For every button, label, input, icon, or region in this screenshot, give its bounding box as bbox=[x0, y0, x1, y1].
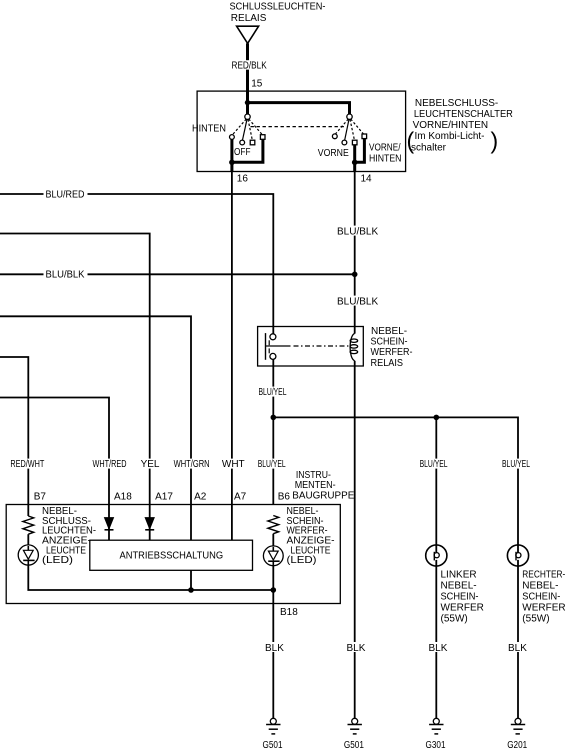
svg-text:BLU/YEL: BLU/YEL bbox=[502, 459, 530, 470]
label BLU/BLK bbox=[44, 269, 88, 280]
svg-text:BLU/BLK: BLU/BLK bbox=[337, 296, 378, 307]
relay K2 dash-dot link bbox=[269, 345, 348, 347]
svg-text:NEBEL-: NEBEL- bbox=[371, 326, 407, 337]
svg-text:BLK: BLK bbox=[508, 643, 527, 654]
relay K2 label bbox=[371, 326, 413, 369]
ground G501 at relay coil bbox=[344, 718, 364, 750]
svg-text:WHT/GRN: WHT/GRN bbox=[174, 459, 210, 470]
svg-text:G301: G301 bbox=[426, 740, 446, 750]
svg-text:(LED): (LED) bbox=[287, 555, 317, 566]
label BLU/YEL right lamp bbox=[501, 459, 532, 470]
wire bus BLU/YEL to fog lamps bbox=[273, 417, 518, 553]
svg-text:RELAIS: RELAIS bbox=[371, 358, 404, 369]
label BLU/YEL at B6 bbox=[257, 459, 287, 470]
svg-text:B6: B6 bbox=[278, 491, 291, 502]
node junction 14 bbox=[352, 160, 358, 166]
svg-text:G501: G501 bbox=[263, 740, 283, 750]
wire BLU/BLK feeder to relay coil bbox=[0, 273, 355, 275]
dashed mechanical link between poles bbox=[251, 126, 346, 128]
svg-text:B18: B18 bbox=[280, 607, 298, 618]
svg-text:14: 14 bbox=[361, 174, 373, 185]
label BLU/BLK upper bbox=[336, 226, 382, 238]
wire heavy OFF position left pole bbox=[232, 139, 263, 162]
relay K1 SCHLUSSLEUCHTEN-RELAIS label bbox=[230, 2, 326, 24]
diode D2 at A18 bbox=[105, 518, 114, 530]
svg-text:SCHEIN-: SCHEIN- bbox=[441, 592, 479, 603]
wire left fog lamp drop bbox=[435, 417, 437, 553]
LED D1 NEBELSCHLUSSLEUCHTEN-ANZEIGELEUCHTE bbox=[18, 545, 38, 565]
svg-text:WERFER: WERFER bbox=[441, 603, 484, 614]
node junction at B6 wire bbox=[271, 415, 277, 421]
svg-text:WERFER-: WERFER- bbox=[371, 347, 413, 358]
node junction at left lamp bbox=[434, 415, 440, 421]
wire heavy link to right pole bbox=[248, 103, 350, 115]
svg-text:schalter: schalter bbox=[411, 143, 447, 154]
ground G201 at right lamp bbox=[507, 718, 527, 750]
label LINKER NEBELSCHEINWERFER (55W) bbox=[441, 569, 484, 624]
label BLK at B18 wire bbox=[264, 642, 284, 654]
wire resistor to LED left bbox=[27, 534, 29, 545]
svg-text:(: ( bbox=[407, 128, 415, 154]
svg-text:A7: A7 bbox=[234, 491, 247, 502]
box ANTRIEBSSCHALTUNG bbox=[90, 540, 253, 570]
svg-text:15: 15 bbox=[251, 78, 263, 89]
wire 15 RED/BLK from relay to switch bbox=[246, 43, 249, 114]
label WHT bbox=[221, 459, 245, 470]
svg-text:(55W): (55W) bbox=[522, 614, 549, 625]
svg-text:A17: A17 bbox=[155, 491, 173, 502]
svg-text:RED/WHT: RED/WHT bbox=[10, 459, 44, 470]
svg-text:): ) bbox=[491, 128, 499, 154]
ground G301 at left lamp bbox=[426, 718, 446, 750]
svg-text:YEL: YEL bbox=[141, 459, 160, 470]
wire bus to B18 bbox=[191, 589, 273, 591]
wire resistor to LED right bbox=[272, 534, 274, 546]
svg-text:SCHEIN-: SCHEIN- bbox=[371, 336, 408, 347]
svg-text:G201: G201 bbox=[507, 740, 527, 750]
label RED/BLK bbox=[231, 60, 268, 71]
svg-text:BLU/BLK: BLU/BLK bbox=[337, 226, 378, 237]
wire LED left to bus bbox=[28, 565, 191, 590]
svg-text:VORNE/: VORNE/ bbox=[369, 142, 401, 153]
svg-text:HINTEN: HINTEN bbox=[369, 154, 402, 165]
wire BLK relay coil to ground bbox=[354, 366, 356, 718]
switch pivot left pole bbox=[245, 114, 250, 119]
wire heavy VORNE-HINTEN position right pole bbox=[355, 139, 365, 162]
label BLK at right lamp wire bbox=[507, 642, 527, 654]
label BLU/YEL left lamp bbox=[418, 459, 449, 470]
svg-text:WERFER: WERFER bbox=[522, 603, 565, 614]
wire junction node on pin15 wire bbox=[245, 100, 250, 105]
wire BLU/YEL relay output to B6 bbox=[272, 366, 274, 505]
label NEBELSCHEINWERFER-ANZEIGELEUCHTE (LED) bbox=[287, 506, 335, 566]
svg-text:(LED): (LED) bbox=[42, 555, 73, 566]
svg-text:BLU/YEL: BLU/YEL bbox=[258, 459, 286, 470]
label YEL bbox=[140, 459, 161, 470]
label WHT/GRN bbox=[173, 459, 212, 470]
label NEBELSCHLUSSLEUCHTEN-ANZEIGELEUCHTE (LED) bbox=[42, 506, 96, 566]
ground G501 at B18 bbox=[263, 718, 283, 750]
svg-text:RED/BLK: RED/BLK bbox=[232, 61, 267, 72]
wire BLU/RED feeder to relay contact bbox=[0, 194, 273, 326]
label BLU/YEL below relay bbox=[257, 387, 289, 398]
left pole contacts bbox=[230, 135, 266, 145]
label INSTRUMENTENBAUGRUPPE bbox=[292, 470, 354, 502]
svg-text:NEBEL-: NEBEL- bbox=[522, 581, 558, 592]
wire ANTRIEBSSCHALTUNG output to bus bbox=[190, 570, 192, 590]
svg-text:BLU/YEL: BLU/YEL bbox=[420, 459, 448, 470]
wire LED right to bus and B18 bbox=[272, 566, 274, 719]
svg-text:LINKER: LINKER bbox=[441, 569, 477, 580]
wire BLU/BLK pin14 to relay coil bbox=[354, 172, 356, 327]
svg-text:LEUCHTENSCHALTER: LEUCHTENSCHALTER bbox=[414, 109, 513, 120]
node junction 16 bbox=[229, 160, 235, 166]
svg-text:BAUGRUPPE: BAUGRUPPE bbox=[292, 491, 354, 502]
svg-text:HINTEN: HINTEN bbox=[192, 123, 226, 134]
svg-text:BLK: BLK bbox=[429, 643, 448, 654]
diode D3 at A17 bbox=[145, 518, 154, 530]
wire RED/WHT feeder to B7 bbox=[0, 357, 28, 516]
relay K2 coil bbox=[350, 327, 358, 367]
svg-text:ANTRIEBSSCHALTUNG: ANTRIEBSSCHALTUNG bbox=[120, 550, 224, 561]
svg-text:A2: A2 bbox=[194, 491, 207, 502]
resistor R1 in cluster left bbox=[23, 516, 34, 534]
wire heavy from contact to pin 14 bbox=[353, 145, 356, 172]
switch S1 box NEBELSCHLUSSLEUCHTENSCHALTER bbox=[197, 91, 406, 171]
wire WHT pin16 to A7 bbox=[231, 172, 233, 541]
svg-text:BLU/RED: BLU/RED bbox=[46, 189, 85, 200]
svg-text:RECHTER-: RECHTER- bbox=[522, 569, 565, 580]
label BLU/RED bbox=[44, 189, 88, 200]
svg-text:16: 16 bbox=[237, 174, 249, 185]
label row RED/WHT bbox=[9, 459, 46, 470]
svg-text:SCHLUSSLEUCHTEN-: SCHLUSSLEUCHTEN- bbox=[230, 2, 326, 13]
svg-text:BLU/YEL: BLU/YEL bbox=[259, 387, 287, 398]
svg-text:SCHEIN-: SCHEIN- bbox=[522, 592, 560, 603]
instrument cluster box bbox=[6, 505, 340, 604]
wire YEL feeder to A17 bbox=[0, 234, 150, 541]
svg-text:BLK: BLK bbox=[265, 643, 284, 654]
label BLK at left lamp wire bbox=[428, 642, 448, 654]
switch pivot right pole bbox=[347, 114, 352, 119]
label VORNE/HINTEN bbox=[369, 142, 402, 164]
resistor R2 in cluster right bbox=[268, 516, 279, 534]
svg-text:VORNE: VORNE bbox=[318, 148, 349, 159]
relay K1 triangle symbol bbox=[237, 26, 259, 43]
left pole contact spokes bbox=[233, 119, 263, 140]
svg-text:OFF: OFF bbox=[234, 147, 251, 158]
svg-text:(55W): (55W) bbox=[441, 614, 468, 625]
wire WHT/RED feeder to A18 bbox=[0, 398, 109, 541]
relay K2 box NEBELSCHEINWERFER-RELAIS bbox=[258, 327, 364, 367]
svg-text:WHT/RED: WHT/RED bbox=[93, 459, 127, 470]
label WHT/RED bbox=[91, 459, 128, 470]
svg-text:BLU/BLK: BLU/BLK bbox=[46, 270, 85, 281]
svg-text:NEBEL-: NEBEL- bbox=[441, 581, 477, 592]
switch label right side bbox=[407, 98, 513, 154]
label BLU/BLK lower bbox=[336, 296, 382, 308]
svg-text:BLK: BLK bbox=[347, 643, 366, 654]
svg-text:WHT: WHT bbox=[222, 459, 245, 470]
right pole contacts bbox=[332, 134, 366, 145]
right pole contact spokes bbox=[335, 119, 364, 140]
node junction coil feed bbox=[352, 272, 358, 278]
node junction bus at B6 chain bbox=[271, 587, 277, 593]
LED D4 NEBELSCHEINWERFER-ANZEIGELEUCHTE bbox=[263, 546, 283, 566]
relay K2 contact terminals bbox=[266, 327, 276, 367]
svg-text:NEBELSCHLUSS-: NEBELSCHLUSS- bbox=[415, 98, 498, 109]
svg-text:G501: G501 bbox=[344, 740, 364, 750]
svg-text:A18: A18 bbox=[114, 491, 132, 502]
wire heavy down to pin 16 bbox=[230, 162, 233, 171]
wire WHT/GRN feeder to A2 bbox=[0, 316, 191, 540]
node junction on bus bbox=[188, 587, 194, 593]
svg-text:Im Kombi-Licht-: Im Kombi-Licht- bbox=[415, 131, 485, 142]
label BLK at relay coil wire bbox=[346, 642, 366, 654]
fog lamp E1 left bbox=[426, 545, 447, 566]
label RECHTER NEBELSCHEINWERFER (55W) bbox=[522, 569, 565, 624]
svg-text:RELAIS: RELAIS bbox=[231, 13, 267, 24]
svg-text:VORNE/HINTEN: VORNE/HINTEN bbox=[413, 120, 489, 131]
svg-text:B7: B7 bbox=[34, 491, 47, 502]
fog lamp E2 right bbox=[507, 545, 528, 566]
